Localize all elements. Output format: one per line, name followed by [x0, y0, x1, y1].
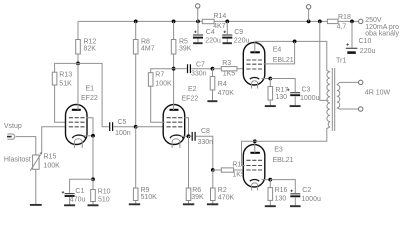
wire secondary top lead	[337, 82, 359, 84]
svg-text:39K: 39K	[191, 194, 204, 201]
svg-text:C8: C8	[201, 128, 210, 135]
svg-text:EF22: EF22	[182, 95, 199, 102]
capacitor C9 220u	[222, 21, 249, 44]
svg-text:E2: E2	[188, 86, 197, 93]
svg-text:470u: 470u	[70, 197, 86, 204]
tube E1 EF22	[66, 85, 98, 144]
resistor R17 130	[268, 79, 288, 106]
capacitor C4 220u	[193, 21, 221, 44]
svg-text:C7: C7	[196, 61, 205, 68]
svg-text:C9: C9	[234, 29, 243, 36]
svg-text:220u: 220u	[205, 37, 221, 44]
tube E3 EBL21	[243, 145, 293, 188]
node junction rail/C10	[350, 20, 354, 24]
svg-text:R5: R5	[179, 38, 188, 45]
ground under R6	[183, 203, 194, 205]
node E1 anode	[76, 62, 80, 66]
terminal 250V supply	[359, 19, 363, 23]
node junction rail/C9	[225, 20, 229, 24]
svg-text:E3: E3	[274, 147, 283, 154]
capacitor C1 470u	[62, 179, 93, 205]
svg-text:510K: 510K	[141, 194, 158, 201]
wire B+ top rail	[78, 20, 359, 22]
svg-text:R18: R18	[338, 14, 351, 21]
node E3 anode	[253, 139, 257, 143]
svg-text:510: 510	[98, 196, 110, 203]
svg-text:R8: R8	[141, 38, 150, 45]
tube E4 EBL21	[243, 43, 294, 86]
E2 heater pins	[172, 142, 180, 148]
ground under R10	[88, 204, 99, 206]
svg-text:C2: C2	[302, 187, 311, 194]
E4 anode plate	[250, 51, 260, 53]
resistor R1 1K5	[213, 162, 245, 179]
E2 anode plate	[170, 109, 179, 111]
node R4/R3 junction	[211, 67, 215, 71]
svg-text:4M7: 4M7	[141, 45, 155, 52]
resistor R5 39K	[171, 21, 191, 68]
svg-text:R10: R10	[98, 188, 111, 195]
node E4 cathode	[268, 77, 272, 81]
wire E2 anode riser	[173, 69, 175, 110]
E4 cathode	[250, 77, 259, 79]
capacitor C8 330n	[189, 128, 214, 170]
wire E3 screen tie	[242, 141, 255, 165]
terminal speaker top	[359, 80, 363, 84]
E4 grids	[246, 60, 262, 69]
E1 cathode	[72, 135, 85, 138]
svg-text:C4: C4	[206, 29, 215, 36]
svg-text:EF22: EF22	[81, 95, 98, 102]
svg-text:R2: R2	[218, 187, 227, 194]
resistor R8 4M7	[133, 21, 154, 126]
E2 heater	[172, 139, 180, 142]
E4 heater	[252, 81, 258, 83]
svg-text:R17: R17	[275, 87, 288, 94]
svg-text:C1: C1	[75, 188, 84, 195]
wire E4 cathode lead	[262, 78, 271, 80]
node E3 cathode	[268, 178, 272, 182]
capacitor C5 100n	[78, 63, 136, 136]
wire pot wiper to E1 grid	[42, 127, 67, 153]
wire E3 anode to transformer	[255, 127, 330, 141]
svg-text:82K: 82K	[84, 45, 97, 52]
resistor R14 4K7	[202, 13, 226, 30]
terminal post above rail right	[306, 5, 310, 22]
node junction rail/R8	[134, 20, 138, 24]
potentiometer R15 100K	[30, 152, 60, 171]
tube E2 EF22	[163, 86, 198, 145]
svg-text:C10: C10	[359, 38, 372, 45]
resistor R9 510K	[133, 127, 157, 204]
capacitor C3 1000u	[270, 79, 319, 107]
E1 grids	[69, 118, 86, 127]
svg-text:R4: R4	[218, 81, 227, 88]
transformer Tr1 core	[332, 68, 334, 131]
E2 cathode	[170, 135, 183, 138]
node E2 anode	[172, 67, 176, 71]
connector Vstup input jack	[7, 134, 15, 139]
svg-text:4R 10W: 4R 10W	[365, 90, 391, 97]
wire E1 cathode down	[92, 136, 94, 180]
svg-text:Vstup: Vstup	[4, 123, 22, 130]
node E1 cathode	[91, 134, 95, 138]
svg-text:4,7: 4,7	[337, 23, 347, 30]
svg-text:E1: E1	[86, 85, 95, 92]
node junction rail/terminal	[307, 20, 311, 24]
svg-text:E4: E4	[273, 46, 282, 53]
E3 heater pins	[252, 185, 258, 191]
capacitor C7 330n	[174, 61, 213, 77]
resistor R6 39K	[186, 136, 204, 203]
svg-text:220u: 220u	[234, 37, 250, 44]
svg-text:1000u: 1000u	[301, 196, 321, 203]
resistor R3 1K5	[213, 60, 245, 78]
ground under R15	[30, 204, 42, 206]
wire input jack to pot	[16, 137, 36, 155]
node E2 grid	[134, 125, 138, 129]
svg-text:1K5: 1K5	[223, 71, 236, 78]
svg-text:R15: R15	[44, 154, 57, 161]
svg-text:C5: C5	[118, 119, 127, 126]
resistor R2 470K	[211, 170, 235, 204]
svg-text:470K: 470K	[218, 90, 235, 97]
resistor R13 51K	[52, 63, 78, 122]
svg-text:EBL21: EBL21	[273, 157, 294, 164]
svg-text:100K: 100K	[44, 162, 61, 169]
svg-text:R14: R14	[213, 13, 226, 20]
terminal post above C4	[196, 4, 200, 22]
svg-text:R16: R16	[275, 187, 288, 194]
terminal speaker bottom	[359, 107, 363, 111]
wire E4 anode riser	[254, 41, 256, 52]
transformer Tr1 primary winding	[327, 72, 330, 127]
svg-text:39K: 39K	[179, 45, 192, 52]
wire E4 anode to transformer	[255, 41, 330, 71]
svg-text:Hlasitost: Hlasitost	[4, 157, 31, 164]
ground under R4	[207, 100, 217, 102]
svg-text:4K7: 4K7	[213, 23, 226, 30]
ground under R17	[265, 105, 276, 107]
E3 grids	[246, 160, 262, 170]
transformer Tr1 secondary winding	[337, 85, 340, 108]
ground under R9	[129, 203, 140, 205]
wire E1 cathode lead	[84, 135, 94, 137]
wire E4 screen tie	[264, 41, 295, 64]
wire B+ to transformer tap	[320, 21, 329, 100]
wire pot bottom to ground	[35, 169, 37, 204]
svg-text:130: 130	[275, 195, 287, 202]
svg-text:oba kanály: oba kanály	[365, 30, 399, 37]
ground under R16	[265, 205, 276, 207]
node E2 cathode	[187, 134, 191, 138]
svg-text:130: 130	[275, 94, 287, 101]
svg-text:330n: 330n	[198, 139, 214, 146]
E2 grids	[167, 118, 184, 127]
svg-text:R9: R9	[141, 187, 150, 194]
capacitor C10 220u	[346, 21, 376, 54]
wire E2 suppressor tie to cathode	[184, 118, 188, 137]
node junction rail/R5	[172, 20, 176, 24]
capacitor C2 1000u	[270, 180, 321, 207]
svg-text:R12: R12	[84, 38, 97, 45]
node junction rail/C4	[196, 20, 200, 24]
svg-text:R13: R13	[59, 72, 72, 79]
E1 anode plate	[72, 109, 81, 111]
wire secondary bottom lead	[337, 108, 359, 109]
wire E3 cathode lead	[262, 179, 271, 181]
svg-text:Tr1: Tr1	[336, 58, 346, 65]
node junction rail/transformer tap	[318, 20, 322, 24]
label 250V 120mA pro oba kanaly	[365, 17, 399, 37]
svg-text:R3: R3	[222, 60, 231, 67]
node E4 screen junction	[293, 40, 297, 44]
resistor R18 4,7	[327, 14, 351, 30]
svg-text:R7: R7	[155, 72, 164, 79]
svg-text:330n: 330n	[191, 70, 207, 77]
resistor R16 130	[268, 180, 288, 206]
resistor R12 82K	[76, 21, 97, 63]
resistor R7 100K	[148, 69, 173, 123]
svg-text:100n: 100n	[115, 130, 131, 137]
node C1 junction	[91, 177, 95, 181]
E3 heater	[252, 183, 258, 185]
E3 anode plate	[250, 152, 260, 154]
node R2/R1 junction	[211, 168, 215, 172]
wire E3 anode riser	[254, 141, 256, 153]
E3 cathode	[250, 179, 259, 181]
svg-text:EBL21: EBL21	[273, 57, 294, 64]
svg-text:220u: 220u	[360, 48, 376, 55]
svg-text:100K: 100K	[155, 81, 172, 88]
svg-text:470K: 470K	[218, 194, 235, 201]
svg-text:R1: R1	[232, 162, 241, 169]
E1 heater	[74, 139, 82, 142]
wire E2 cathode lead	[181, 135, 189, 137]
resistor R10 510	[91, 179, 111, 204]
svg-text:1000u: 1000u	[300, 95, 320, 102]
svg-text:C3: C3	[302, 87, 311, 94]
resistor R4 470K	[210, 69, 234, 101]
wire E1 anode riser	[77, 63, 79, 110]
E1 heater pins	[74, 142, 82, 148]
ground under R2	[207, 203, 218, 205]
wire grid node to E2	[136, 126, 165, 128]
wire E1 suppressor tie to cathode	[87, 118, 94, 136]
E4 heater pins	[252, 83, 258, 89]
svg-text:51K: 51K	[59, 81, 72, 88]
svg-text:R6: R6	[192, 187, 201, 194]
